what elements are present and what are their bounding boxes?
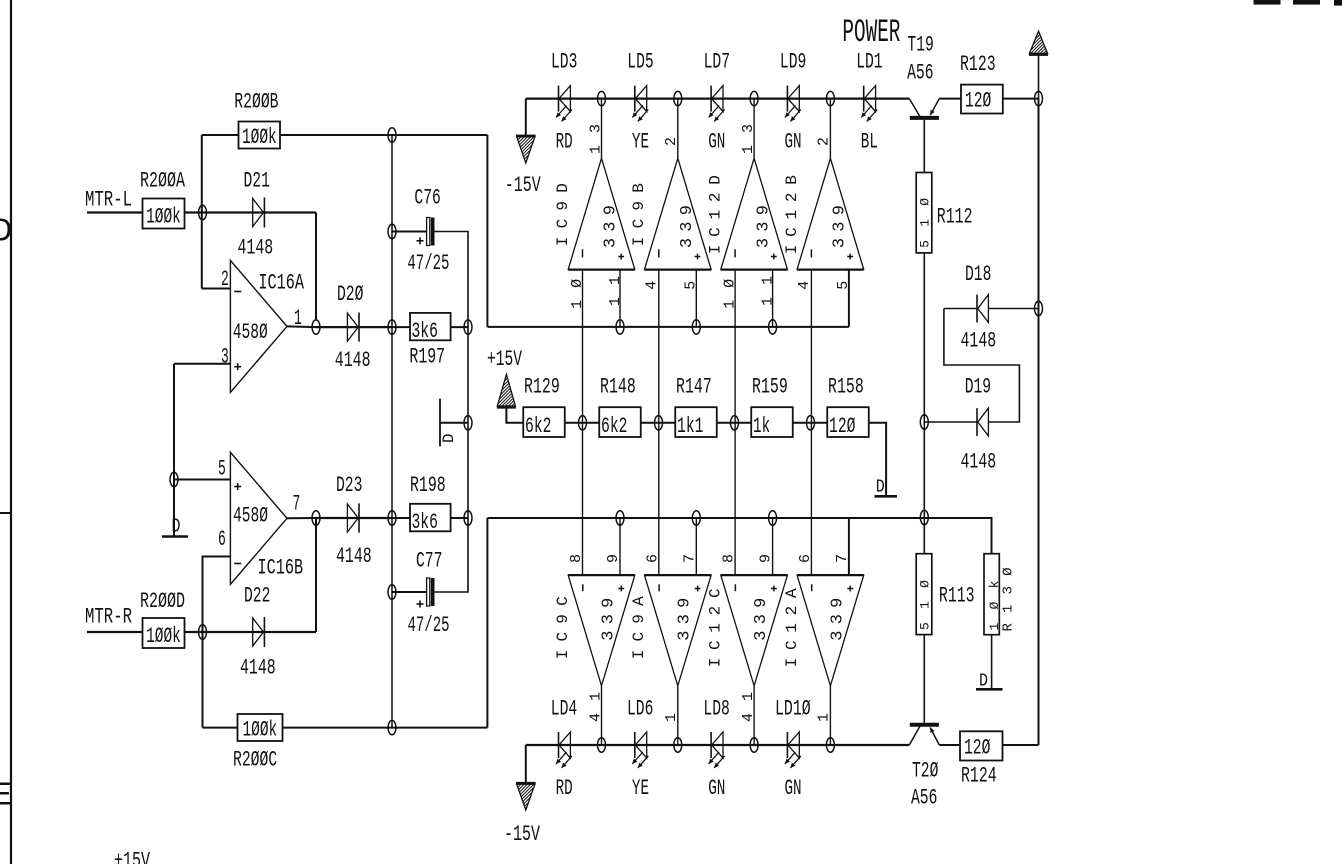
wire feedback top drop — [486, 135, 488, 327]
diode D20 — [347, 313, 358, 341]
wire comparator minus column 4 — [810, 269, 812, 575]
svg-text:2: 2 — [663, 137, 680, 146]
junction R197/rail B — [464, 320, 472, 334]
svg-text:R113: R113 — [939, 584, 975, 609]
svg-text:6k2: 6k2 — [601, 414, 627, 439]
junction R200B/rail — [388, 128, 396, 142]
svg-text:T2Ø: T2Ø — [912, 759, 938, 784]
svg-text:RD: RD — [556, 130, 573, 155]
resistor R200A — [143, 199, 185, 229]
svg-text:458Ø: 458Ø — [233, 320, 268, 345]
junction + bus top 2 — [692, 320, 700, 334]
frame top-right mark 1 — [1254, 0, 1281, 5]
wire analog-ref vertical — [173, 364, 175, 536]
junction top LED row 4 — [826, 91, 834, 105]
svg-text:LD9: LD9 — [780, 50, 806, 75]
wire C77 left — [392, 591, 427, 593]
resistor R147 — [675, 407, 717, 437]
junction chain node 1 — [579, 416, 587, 430]
svg-text:4148: 4148 — [240, 656, 276, 681]
comparator IC12D — [721, 158, 788, 269]
wire D-gnd stub — [440, 422, 468, 424]
junction + bus bottom 2 — [692, 511, 700, 525]
junction IC16B out — [312, 511, 320, 525]
svg-text:LD1: LD1 — [856, 50, 882, 75]
svg-text:1ØØk: 1ØØk — [242, 125, 277, 150]
ground D (rail B) — [439, 399, 441, 447]
svg-text:1: 1 — [815, 713, 832, 722]
svg-text:R2ØØD: R2ØØD — [140, 589, 185, 614]
svg-text:3k6: 3k6 — [412, 319, 438, 344]
svg-text:1ØØk: 1ØØk — [146, 205, 181, 230]
svg-text:3: 3 — [221, 345, 229, 370]
junction + bus bottom 1 — [616, 511, 624, 525]
wire R200B right — [280, 134, 487, 136]
capacitor C77 — [427, 578, 430, 606]
comparator IC12B — [797, 158, 864, 269]
svg-text:4: 4 — [644, 281, 661, 290]
junction chain node 2 — [655, 416, 663, 430]
svg-text:D: D — [979, 672, 988, 692]
frame left border — [10, 0, 12, 864]
svg-text:D21: D21 — [244, 169, 270, 194]
LED LD5 — [634, 86, 636, 112]
diode D22 — [263, 617, 265, 647]
svg-text:C77: C77 — [416, 549, 442, 574]
wire rail B — [435, 232, 469, 593]
svg-text:R2ØØB: R2ØØB — [234, 90, 278, 115]
wire chain seg 3 — [717, 422, 752, 424]
LED LD8 — [710, 732, 712, 758]
resistor R123 — [961, 85, 1003, 114]
wire R200D to node B — [185, 631, 317, 633]
svg-text:R158: R158 — [828, 375, 864, 400]
svg-text:R159: R159 — [752, 375, 788, 400]
svg-text:LD5: LD5 — [627, 50, 653, 75]
junction bottom LED row 2 — [674, 738, 682, 752]
comparator IC9C — [568, 575, 635, 686]
comparator IC9A — [645, 575, 712, 686]
svg-text:R123: R123 — [960, 52, 996, 77]
wire bottom LED row — [526, 744, 910, 746]
svg-text:1k: 1k — [753, 414, 770, 439]
svg-text:7: 7 — [834, 554, 851, 563]
svg-text:D23: D23 — [336, 473, 362, 498]
LED LD3 — [558, 86, 560, 112]
svg-text:R197: R197 — [409, 345, 445, 370]
svg-text:339: 339 — [602, 205, 621, 248]
svg-text:6: 6 — [218, 527, 226, 552]
svg-text:R129: R129 — [524, 375, 560, 400]
svg-text:MTR-R: MTR-R — [85, 605, 132, 630]
svg-text:-15V: -15V — [505, 173, 542, 198]
svg-text:GN: GN — [785, 130, 802, 155]
wire R200C right — [283, 727, 488, 729]
wire +V rail — [1038, 99, 1040, 745]
resistor R198 — [410, 504, 451, 532]
wire comparator minus column 2 — [658, 269, 660, 575]
svg-text:6k2: 6k2 — [525, 414, 551, 439]
svg-text:339: 339 — [828, 598, 847, 641]
wire IC16B output — [287, 517, 316, 519]
svg-text:T19: T19 — [907, 33, 933, 58]
wire +15V to R129 — [506, 408, 523, 423]
LED LD1 — [863, 86, 865, 112]
svg-text:2: 2 — [815, 137, 832, 146]
wire + tap top 1 — [619, 269, 621, 327]
diode D18 — [944, 308, 977, 310]
LED LD4 — [558, 732, 560, 758]
svg-text:9: 9 — [758, 554, 775, 563]
junction IC16A out — [312, 320, 320, 334]
resistor R200D — [143, 618, 185, 648]
svg-text:+15V: +15V — [487, 347, 523, 372]
resistor R158 — [827, 407, 869, 437]
wire chain seg 4 — [793, 422, 828, 424]
power -15V symbol (top) — [525, 99, 527, 136]
svg-text:12Ø: 12Ø — [829, 414, 855, 439]
wire comparator minus column 1 — [582, 269, 584, 575]
junction bottom LED row 4 — [826, 738, 834, 752]
wire D18 to D19 jog — [944, 309, 1020, 423]
ground D (R130) — [976, 688, 1003, 691]
transistor T19 — [909, 99, 920, 117]
svg-text:D: D — [440, 433, 458, 443]
wire + tap bottom IC12A — [848, 518, 850, 575]
resistor R148 — [599, 407, 641, 437]
svg-text:D18: D18 — [965, 262, 991, 287]
svg-text:3k6: 3k6 — [412, 510, 438, 535]
svg-text:7: 7 — [681, 554, 698, 563]
wire node A to IC16A pin2 — [202, 288, 231, 290]
svg-text:4148: 4148 — [335, 348, 371, 373]
svg-text:R112: R112 — [937, 205, 973, 230]
junction chain node 3 — [731, 416, 739, 430]
svg-text:-15V: -15V — [504, 822, 541, 847]
node MTR-R input wire — [87, 631, 143, 633]
svg-text:YE: YE — [632, 130, 649, 155]
wire C76 left — [392, 231, 427, 233]
junction bottom LED row 1 — [598, 738, 606, 752]
svg-text:339: 339 — [831, 205, 850, 248]
wire T19 collector — [923, 120, 925, 173]
svg-text:D2Ø: D2Ø — [337, 282, 363, 307]
junction chain node 4 — [807, 416, 815, 430]
svg-text:339: 339 — [754, 205, 773, 248]
frame row tick — [0, 512, 11, 514]
svg-text:A56: A56 — [911, 786, 937, 811]
svg-text:D: D — [0, 214, 12, 251]
svg-text:12Ø: 12Ø — [964, 736, 990, 761]
junction D20/rail A — [388, 320, 396, 334]
svg-text:LD1Ø: LD1Ø — [775, 697, 811, 722]
wire + tap bottom 1 — [619, 518, 621, 575]
wire + tap top IC12B — [848, 269, 850, 327]
svg-text:339: 339 — [676, 598, 695, 641]
resistor R129 — [523, 407, 565, 437]
resistor R113 — [916, 554, 932, 635]
junction bottom bus right — [920, 510, 928, 524]
svg-text:8: 8 — [721, 554, 738, 563]
svg-text:R2ØØA: R2ØØA — [140, 169, 186, 194]
svg-text:LD6: LD6 — [627, 697, 653, 722]
svg-text:4148: 4148 — [336, 544, 372, 569]
junction D19/collector rail — [920, 415, 928, 429]
wire + bus bottom — [487, 518, 991, 554]
diode D21 — [263, 198, 265, 228]
svg-text:339: 339 — [752, 598, 771, 641]
capacitor C76 — [427, 218, 430, 246]
svg-text:D19: D19 — [965, 375, 991, 400]
frame top-right mark 3 — [1334, 0, 1342, 6]
junction + bus bottom 3 — [769, 511, 777, 525]
svg-text:D: D — [876, 478, 885, 498]
wire IC16B pin5 — [174, 479, 230, 481]
op-amp IC16B — [230, 452, 287, 584]
junction top LED row 2 — [674, 91, 682, 105]
wire out to D23 — [316, 517, 392, 519]
svg-text:4: 4 — [796, 281, 813, 290]
LED LD9 — [786, 86, 788, 112]
ground D (R158) — [875, 495, 898, 498]
svg-text:4148: 4148 — [238, 236, 274, 261]
wire R123 right — [1003, 98, 1039, 100]
wire + bus top — [487, 326, 849, 328]
svg-text:6: 6 — [797, 554, 814, 563]
resistor R200B — [239, 122, 281, 149]
wire R130 to ground — [991, 635, 993, 688]
svg-text:IC16A: IC16A — [258, 271, 304, 296]
svg-text:339: 339 — [599, 598, 618, 641]
resistor R112 — [916, 173, 932, 253]
resistor R130 — [984, 554, 999, 635]
svg-text:5: 5 — [682, 281, 699, 290]
junction D23/rail A — [388, 511, 396, 525]
svg-text:IC16B: IC16B — [258, 556, 304, 581]
diode D23 — [347, 504, 358, 532]
resistor R200C — [238, 714, 283, 741]
svg-text:BL: BL — [861, 130, 878, 155]
svg-text:51Ø: 51Ø — [917, 580, 932, 630]
node MTR-L input wire — [87, 211, 143, 213]
svg-text:RD: RD — [556, 776, 573, 801]
svg-text:LD4: LD4 — [551, 697, 577, 722]
wire out to D20 — [316, 326, 392, 328]
svg-text:GN: GN — [708, 776, 725, 801]
wire R198 right — [451, 517, 468, 519]
svg-text:1ØØk: 1ØØk — [146, 624, 181, 649]
wire D23 to R198 — [392, 517, 410, 519]
svg-text:R148: R148 — [600, 375, 636, 400]
wire R200C left — [203, 727, 238, 729]
svg-text:4148: 4148 — [961, 450, 997, 475]
resistor R197 — [410, 313, 451, 340]
wire top LED row — [526, 97, 910, 99]
svg-text:9: 9 — [605, 554, 622, 563]
wire chain seg 2 — [641, 422, 676, 424]
wire R124 right — [1003, 744, 1039, 746]
junction bottom LED row 3 — [750, 738, 758, 752]
junction top LED row 1 — [598, 91, 606, 105]
wire IC16A pin3 — [174, 363, 230, 365]
svg-text:POWER: POWER — [842, 14, 900, 51]
svg-text:5: 5 — [835, 281, 852, 290]
svg-text:339: 339 — [678, 205, 697, 248]
wire + tap bottom 2 — [695, 518, 697, 575]
junction + bus top 1 — [616, 320, 624, 334]
svg-text:8: 8 — [568, 554, 585, 563]
svg-text:5: 5 — [218, 457, 226, 482]
comparator IC12A — [797, 575, 864, 686]
wire chain seg 1 — [565, 422, 600, 424]
svg-text:D22: D22 — [244, 584, 270, 609]
diode D19 — [924, 421, 977, 423]
junction node B — [199, 625, 207, 639]
junction R200C/rail — [388, 720, 396, 734]
junction D18/+V rail — [1035, 301, 1043, 315]
wire IC16B pin6 — [203, 557, 231, 728]
svg-text:1ØØk: 1ØØk — [243, 718, 278, 743]
junction + bus top 3 — [769, 320, 777, 334]
wire R158 to ground — [869, 423, 886, 495]
svg-text:1: 1 — [663, 713, 680, 722]
resistor R124 — [960, 731, 1003, 760]
LED LD1Ø — [786, 732, 788, 758]
ground D (IC16 ref) — [162, 535, 188, 538]
wire R197 right — [451, 326, 468, 328]
wire comparator minus column 3 — [734, 269, 736, 575]
svg-text:MTR-L: MTR-L — [85, 188, 132, 213]
svg-text:GN: GN — [708, 130, 725, 155]
wire D21 cathode to IC16A output — [315, 213, 317, 321]
junction rail B mid — [464, 416, 472, 430]
svg-text:A56: A56 — [907, 61, 933, 86]
svg-text:D: D — [172, 516, 181, 538]
svg-text:R124: R124 — [961, 764, 997, 789]
svg-text:R2ØØC: R2ØØC — [233, 748, 277, 773]
comparator IC9B — [645, 158, 712, 269]
wire + tap bottom 3 — [772, 518, 774, 575]
svg-text:47/25: 47/25 — [407, 251, 449, 276]
svg-text:2: 2 — [221, 267, 229, 292]
comparator IC12C — [721, 575, 788, 686]
svg-text:C76: C76 — [414, 186, 440, 211]
transistor T20 — [923, 635, 925, 723]
power -15V symbol (bottom) — [525, 745, 527, 783]
svg-text:GN: GN — [785, 776, 802, 801]
svg-text:LD7: LD7 — [704, 50, 730, 75]
junction C76/rail A — [388, 224, 396, 238]
frame top-right mark 2 — [1293, 0, 1320, 5]
wire + tap top 3 — [772, 269, 774, 327]
comparator IC9D — [568, 158, 635, 269]
wire IC16A output — [287, 325, 316, 328]
svg-text:7: 7 — [293, 492, 301, 517]
svg-text:E: E — [0, 778, 12, 815]
svg-text:LD3: LD3 — [551, 50, 577, 75]
op-amp IC16A — [230, 260, 287, 392]
junction node A — [199, 205, 207, 219]
LED LD6 — [634, 732, 636, 758]
wire D22 cathode to IC16B output — [315, 518, 317, 632]
svg-text:47/25: 47/25 — [408, 613, 450, 638]
junction R198/rail B — [464, 511, 472, 525]
svg-text:12Ø: 12Ø — [965, 89, 991, 114]
svg-text:YE: YE — [632, 776, 649, 801]
resistor R159 — [751, 407, 793, 437]
junction top LED row 3 — [750, 91, 758, 105]
wire D20 to R197 — [392, 326, 410, 328]
wire + tap top 2 — [695, 269, 697, 327]
svg-text:6: 6 — [644, 554, 661, 563]
svg-text:4148: 4148 — [961, 329, 997, 354]
wire R112 to R113 — [923, 253, 925, 554]
svg-text:+15V: +15V — [114, 849, 151, 864]
wire R200A to node A — [185, 211, 317, 213]
svg-text:LD8: LD8 — [703, 697, 729, 722]
svg-text:51Ø: 51Ø — [917, 198, 932, 248]
svg-text:1k1: 1k1 — [677, 414, 703, 439]
LED LD7 — [710, 86, 712, 112]
svg-text:458Ø: 458Ø — [233, 504, 268, 529]
junction IC16A/IC16B ref — [170, 472, 178, 486]
wire rail A — [391, 135, 393, 728]
svg-text:R198: R198 — [410, 473, 446, 498]
svg-text:R147: R147 — [676, 375, 712, 400]
wire R200B left — [202, 134, 239, 136]
wire feedback bottom rise — [486, 518, 488, 728]
junction +V rail top — [1035, 91, 1043, 105]
junction C77/rail A — [388, 585, 396, 599]
